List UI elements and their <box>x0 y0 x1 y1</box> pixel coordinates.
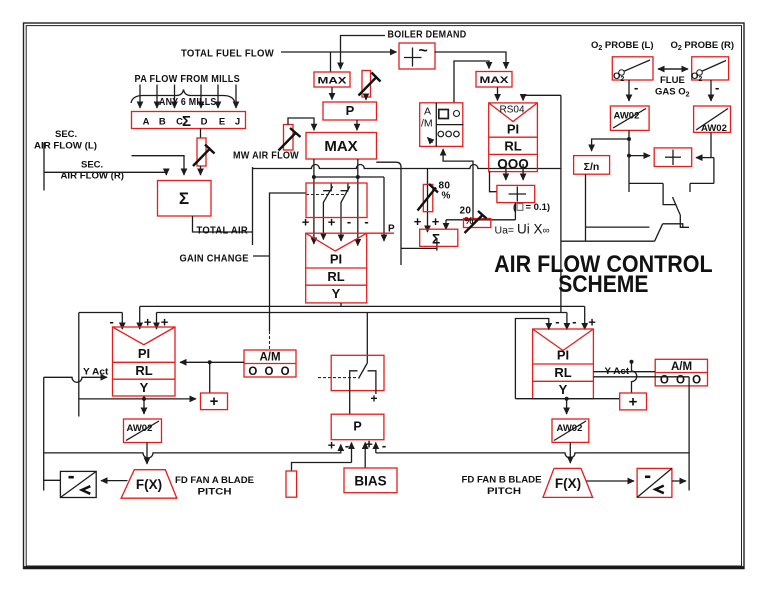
svg-text:RS04: RS04 <box>499 105 524 116</box>
svg-text:P: P <box>346 103 355 118</box>
svg-text:-: - <box>382 438 386 453</box>
svg-text:+: + <box>370 392 377 406</box>
svg-text:TOTAL FUEL FLOW: TOTAL FUEL FLOW <box>181 49 274 60</box>
svg-text:%: % <box>465 216 474 227</box>
svg-text:PITCH: PITCH <box>198 487 232 498</box>
svg-text:Y: Y <box>332 286 341 301</box>
svg-text:Σ: Σ <box>432 232 440 247</box>
svg-text:-: - <box>634 80 638 95</box>
svg-text:RL: RL <box>327 269 344 284</box>
svg-text:FD FAN A BLADE: FD FAN A BLADE <box>175 475 254 486</box>
svg-text:+: + <box>629 394 638 411</box>
svg-text:+: + <box>302 215 310 230</box>
svg-text:PI: PI <box>557 348 569 363</box>
svg-text:Σ: Σ <box>179 189 189 208</box>
svg-text:F(X): F(X) <box>555 476 581 491</box>
svg-text:+: + <box>328 215 336 230</box>
svg-text:SEC.: SEC. <box>55 129 77 140</box>
svg-text:(: ( <box>513 202 517 213</box>
svg-text:-: - <box>345 438 349 453</box>
svg-text:BOILER DEMAND: BOILER DEMAND <box>388 30 467 41</box>
svg-text:MAX: MAX <box>318 76 348 87</box>
svg-text:AW02: AW02 <box>127 423 153 434</box>
svg-text:PI: PI <box>138 346 150 361</box>
svg-text:BIAS: BIAS <box>354 474 386 489</box>
svg-text:AW02: AW02 <box>557 423 583 434</box>
svg-text:TOTAL AIR: TOTAL AIR <box>197 226 249 237</box>
svg-text:O2 PROBE (L): O2 PROBE (L) <box>591 40 654 52</box>
svg-text:FLUE: FLUE <box>660 75 685 86</box>
svg-text:FD FAN B BLADE: FD FAN B BLADE <box>462 475 542 486</box>
svg-text:+: + <box>210 393 219 410</box>
svg-text:Ua= Ui X∞: Ua= Ui X∞ <box>495 222 550 237</box>
svg-text:B: B <box>159 117 166 128</box>
svg-text:+: + <box>365 437 373 452</box>
svg-text:-: - <box>364 214 368 229</box>
svg-text:/M: /M <box>421 118 433 130</box>
svg-text:-: - <box>347 214 351 229</box>
svg-text:Y Act: Y Act <box>605 366 630 377</box>
svg-text:A/M: A/M <box>671 361 692 373</box>
svg-text:Σ/n: Σ/n <box>584 161 600 173</box>
svg-text:Y Act: Y Act <box>83 367 109 378</box>
svg-text:ANY 6 MILLS: ANY 6 MILLS <box>159 97 217 108</box>
svg-text:Y: Y <box>559 382 568 397</box>
svg-text:+: + <box>328 438 336 453</box>
svg-text:GAS O2: GAS O2 <box>655 87 690 99</box>
svg-text:P: P <box>353 420 361 434</box>
svg-text:-: - <box>715 80 719 95</box>
svg-text:Y: Y <box>140 380 149 395</box>
svg-text:MAX: MAX <box>324 138 357 155</box>
svg-text:A/M: A/M <box>259 352 280 364</box>
svg-text:RL: RL <box>554 365 571 380</box>
svg-text:D: D <box>201 117 208 128</box>
svg-text:AW02: AW02 <box>614 111 640 122</box>
svg-text:RL: RL <box>135 363 152 378</box>
svg-text:AW02: AW02 <box>701 123 727 134</box>
svg-text:F(X): F(X) <box>136 477 162 492</box>
svg-text:E: E <box>219 117 225 128</box>
svg-text:OOO: OOO <box>497 157 529 172</box>
svg-text:+: + <box>588 315 596 330</box>
svg-text:A: A <box>143 117 150 128</box>
svg-text:A: A <box>424 106 431 118</box>
svg-text:PI: PI <box>330 252 342 267</box>
svg-text:%: % <box>442 191 451 202</box>
svg-text:-: - <box>572 314 576 329</box>
svg-text:-: - <box>555 314 559 329</box>
svg-text:GAIN CHANGE: GAIN CHANGE <box>180 254 249 265</box>
svg-text:O2 PROBE (R): O2 PROBE (R) <box>671 40 735 52</box>
svg-text:+: + <box>414 214 422 229</box>
svg-text:RL: RL <box>504 139 521 154</box>
svg-text:PITCH: PITCH <box>487 486 521 497</box>
svg-text:Σ: Σ <box>182 113 191 130</box>
svg-text:20: 20 <box>460 206 472 217</box>
svg-text:SCHEME: SCHEME <box>558 271 648 298</box>
svg-text:O O O: O O O <box>248 366 291 378</box>
svg-text:PA FLOW FROM MILLS: PA FLOW FROM MILLS <box>135 74 241 85</box>
svg-text:J: J <box>235 117 240 128</box>
svg-text:+: + <box>432 214 440 229</box>
svg-text:= 0.1): = 0.1) <box>526 202 551 213</box>
svg-text:MW AIR FLOW: MW AIR FLOW <box>233 151 299 162</box>
svg-text:SEC.: SEC. <box>81 160 103 171</box>
svg-text:MAX: MAX <box>480 75 510 86</box>
svg-text:~: ~ <box>419 43 428 60</box>
svg-text:PI: PI <box>507 122 519 137</box>
